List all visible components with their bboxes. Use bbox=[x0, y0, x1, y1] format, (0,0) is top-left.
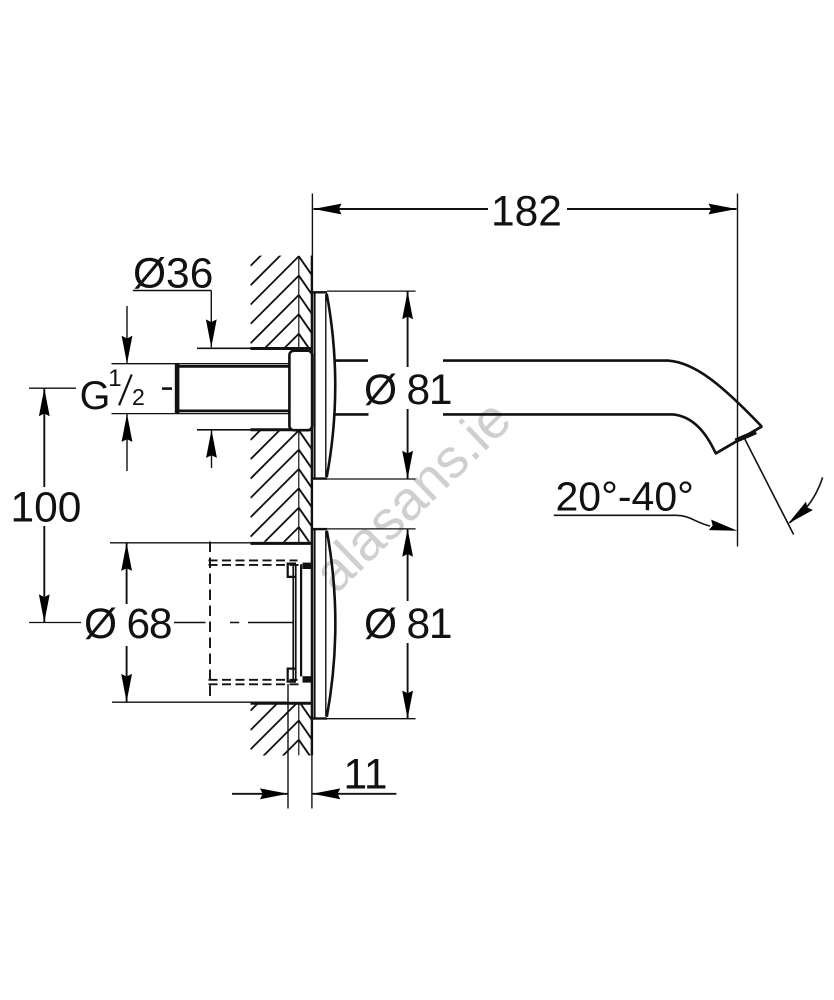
dimension 100 bottom extension line bbox=[29, 622, 83, 624]
dimension G1/2 upper stem bbox=[126, 306, 128, 364]
dimension O81 lower bottom extension line bbox=[327, 718, 416, 720]
supply pipe end cap bbox=[175, 364, 180, 414]
lower escutcheon top edge bbox=[313, 528, 327, 530]
arrowhead G1/2 up bbox=[122, 414, 133, 442]
leader dash G1/2 bbox=[162, 387, 172, 390]
spout angle range line bbox=[744, 438, 794, 535]
wall finished-surface line bbox=[311, 256, 313, 756]
dimension O81 upper top extension line bbox=[327, 290, 416, 292]
arrowhead O81 upper top bbox=[402, 291, 413, 319]
spout top outline with downward bend bbox=[443, 361, 762, 427]
spout top outline (left of label) bbox=[335, 359, 368, 362]
arrowhead 182 left bbox=[314, 204, 342, 215]
wall plaster boundary line (lower segment) bbox=[298, 704, 300, 756]
valve front plate inner line bbox=[295, 564, 297, 681]
lower wall hole bottom edge / O68 extension bbox=[112, 701, 286, 703]
svg-text:20°-40°: 20°-40° bbox=[556, 473, 694, 520]
dimension O36 leader vertical bbox=[210, 291, 212, 348]
arrowhead O68 up bbox=[121, 543, 132, 571]
svg-text:Ø 68: Ø 68 bbox=[84, 601, 171, 648]
concealed valve housing hidden back edge bbox=[209, 542, 211, 703]
valve sleeve front line bbox=[300, 564, 302, 676]
wall section hatching bbox=[251, 198, 313, 807]
dimension line 11 right part bbox=[312, 793, 396, 795]
dimension line 11 left part bbox=[232, 793, 288, 795]
wall plaster boundary line (middle segment) bbox=[298, 431, 300, 542]
concealed valve housing hidden top edge bbox=[209, 559, 298, 561]
label halo O81 upper bbox=[361, 367, 448, 409]
spout connector socket at wall bbox=[289, 351, 312, 431]
label fraction slash bbox=[119, 375, 132, 406]
concealed valve sleeve hidden top edge bbox=[209, 564, 304, 566]
dimension O81 lower top extension line bbox=[327, 528, 416, 530]
arrowhead G1/2 down bbox=[122, 336, 133, 364]
lower escutcheon dome profile bbox=[327, 531, 336, 717]
dimension line O68 bbox=[126, 543, 128, 702]
svg-text:100: 100 bbox=[10, 484, 81, 531]
supply pipe nipple bottom edge bbox=[177, 410, 290, 413]
centerline segment 3 bbox=[248, 622, 294, 624]
arrowhead 100 up bbox=[39, 388, 50, 416]
watermark "alasans.ie" bbox=[301, 387, 522, 604]
lower wall hole top edge / O68 extension bbox=[110, 542, 299, 544]
upper escutcheon dome profile bbox=[327, 294, 336, 478]
label halo 100 bbox=[12, 487, 80, 526]
spout bottom outline (left of label) bbox=[335, 413, 369, 416]
svg-text:G: G bbox=[80, 374, 111, 418]
concealed valve sleeve hidden bottom edge bbox=[209, 683, 304, 685]
lower escutcheon ring edge bbox=[325, 531, 327, 717]
dimension 182 right extension line bbox=[737, 194, 739, 547]
svg-text:11: 11 bbox=[343, 751, 387, 798]
spout aerator bbox=[736, 432, 757, 441]
arrowhead O36 up bbox=[206, 430, 217, 458]
dimension line 100 bbox=[43, 388, 45, 622]
spout outlet face bbox=[715, 426, 762, 454]
label halo 182 bbox=[488, 193, 567, 228]
arrowhead 182 right bbox=[709, 204, 737, 215]
dimension O36 lower stem bbox=[211, 430, 213, 468]
centerline segment 1 bbox=[174, 622, 206, 624]
dimension line 182 bbox=[314, 208, 737, 210]
leader line 20-40 bbox=[554, 515, 710, 526]
concealed valve housing hidden bottom edge bbox=[209, 679, 298, 681]
valve retaining clip bottom bbox=[288, 669, 296, 682]
upper escutcheon top edge bbox=[313, 291, 327, 293]
arrowhead O68 down bbox=[121, 674, 132, 702]
svg-text:1: 1 bbox=[108, 365, 121, 392]
centerline segment 2 bbox=[230, 622, 239, 624]
spout angle arc bbox=[789, 477, 822, 522]
svg-text:Ø 81: Ø 81 bbox=[364, 601, 451, 648]
supply pipe nipple top edge bbox=[177, 365, 290, 368]
upper escutcheon bottom edge bbox=[313, 477, 327, 479]
svg-text:182: 182 bbox=[491, 189, 562, 236]
label halo O68 bbox=[81, 604, 172, 646]
spout bottom outline with downward bend bbox=[443, 414, 716, 453]
upper wall hole top edge bbox=[197, 347, 290, 349]
dimension G1/2 lower stem bbox=[126, 414, 128, 471]
dimension 11 right extension line bbox=[311, 755, 313, 808]
dimension 182 left extension line bbox=[311, 194, 313, 256]
G1/2 thread crest line (bottom) bbox=[112, 413, 291, 415]
valve retaining clip top bbox=[288, 564, 296, 577]
upper wall hole bottom edge bbox=[197, 429, 290, 431]
arrowhead angle arc bbox=[785, 502, 813, 528]
dimension 100 top extension line bbox=[29, 387, 76, 389]
upper escutcheon ring edge bbox=[325, 294, 327, 477]
arrowhead O81 upper bottom bbox=[402, 451, 413, 479]
arrowhead O81 lower top bbox=[402, 529, 413, 557]
wall plaster boundary line (upper segment) bbox=[298, 256, 300, 348]
valve seal block top bbox=[303, 563, 313, 569]
arrowhead 100 down bbox=[39, 594, 50, 622]
lower escutcheon back edge bbox=[314, 529, 316, 719]
arrowhead leader 20-40 bbox=[709, 520, 739, 536]
valve front plate outer line bbox=[292, 564, 294, 681]
svg-text:Ø36: Ø36 bbox=[133, 251, 213, 298]
arrowhead O81 lower bottom bbox=[402, 691, 413, 719]
valve seal block bottom bbox=[303, 676, 313, 682]
arrowhead 11 pointing right bbox=[260, 788, 288, 799]
svg-text:2: 2 bbox=[132, 384, 145, 410]
arrowhead O36 down bbox=[206, 319, 217, 347]
label halo O81 lower bbox=[361, 601, 448, 643]
svg-text:Ø 81: Ø 81 bbox=[364, 367, 451, 414]
upper escutcheon back edge bbox=[314, 292, 316, 479]
G1/2 thread crest line (top) bbox=[112, 363, 291, 365]
dimension line O81 upper bbox=[407, 291, 409, 479]
dimension O36 leader horizontal bbox=[133, 290, 212, 292]
dimension 11 left extension line bbox=[287, 684, 289, 809]
lower escutcheon bottom edge bbox=[313, 717, 327, 719]
dimension line O81 lower bbox=[407, 529, 409, 719]
dimension O81 upper bottom extension line bbox=[327, 478, 416, 480]
arrowhead 11 pointing left bbox=[312, 788, 340, 799]
